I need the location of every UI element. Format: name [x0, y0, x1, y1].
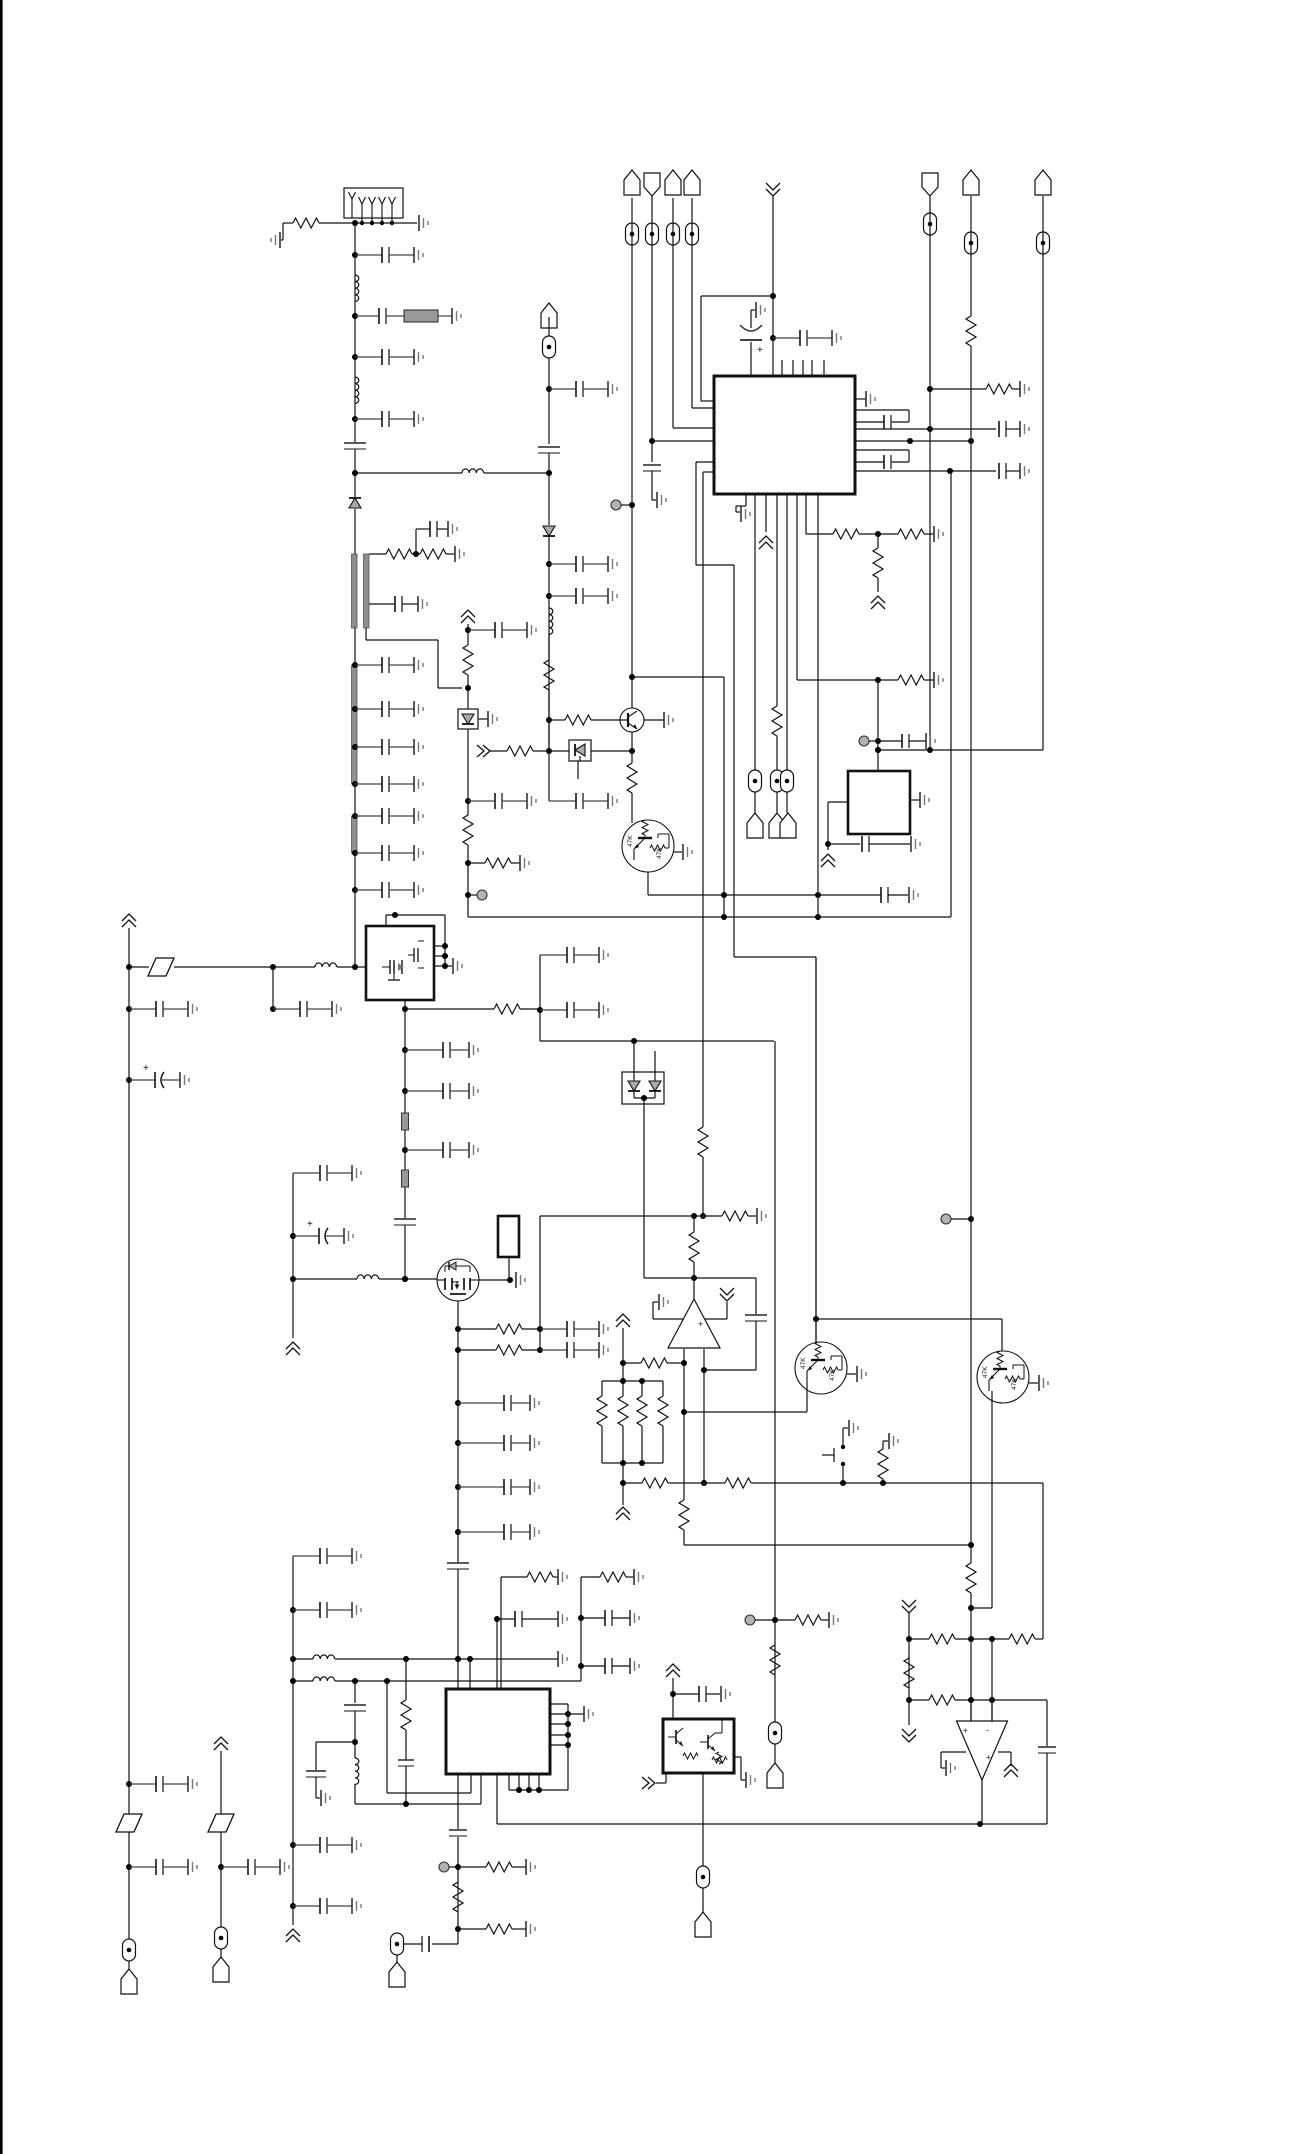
svg-text:+: +	[963, 1726, 968, 1735]
svg-text:47K: 47K	[982, 1366, 989, 1378]
svg-text:47K: 47K	[656, 847, 663, 859]
svg-text:+: +	[986, 1753, 991, 1762]
svg-text:47K: 47K	[829, 1369, 836, 1381]
svg-text:+: +	[307, 1219, 313, 1230]
svg-text:+: +	[143, 1063, 149, 1074]
svg-text:-: -	[986, 1725, 989, 1735]
svg-text:+: +	[698, 1319, 703, 1329]
svg-text:+: +	[757, 345, 763, 356]
svg-text:47K: 47K	[800, 1357, 807, 1369]
svg-text:47K: 47K	[627, 835, 634, 847]
svg-text:47K: 47K	[1011, 1378, 1018, 1390]
